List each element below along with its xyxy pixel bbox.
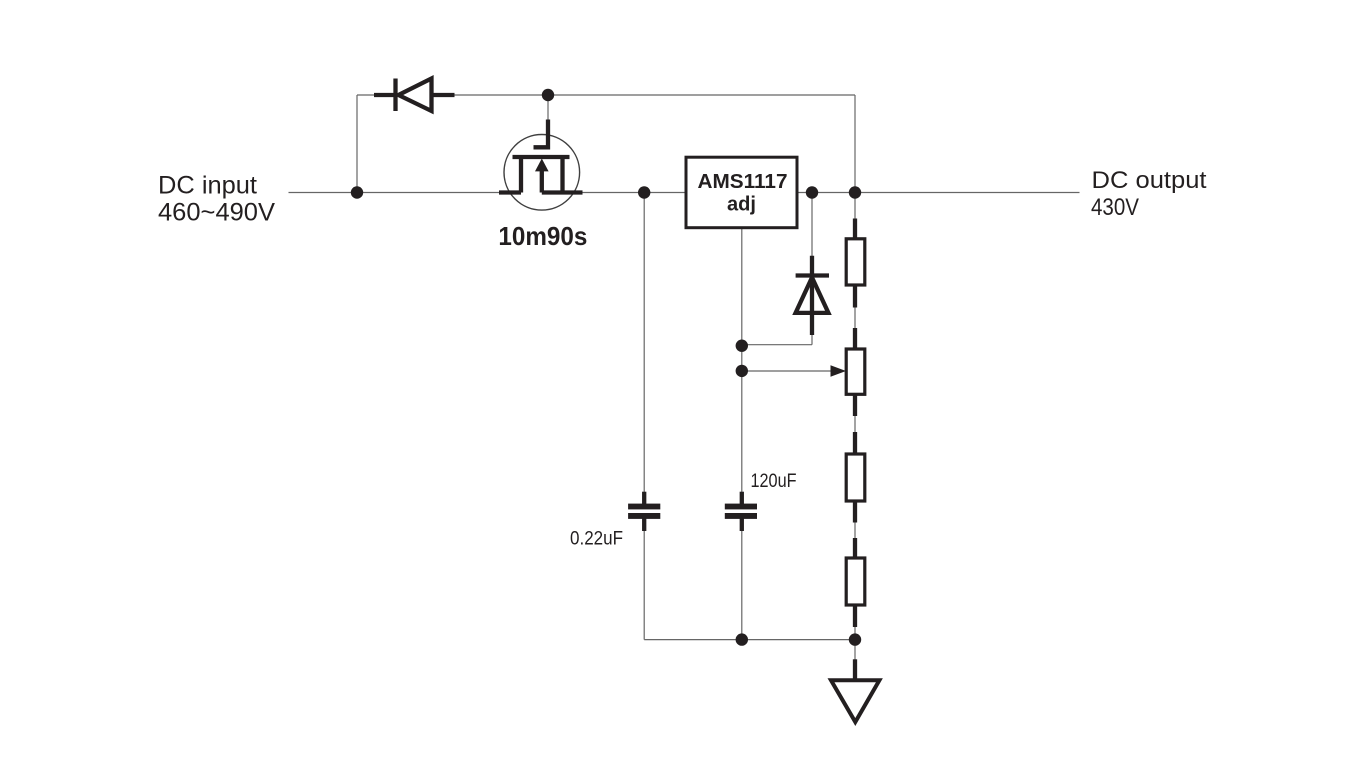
resistor R3 body [846, 558, 865, 605]
diode D2 (vertical, pointing up) [796, 256, 829, 335]
node: bottom rail ground junction [849, 633, 861, 645]
node: adj-wiper junction [736, 365, 748, 377]
svg-text:adj: adj [727, 194, 756, 216]
transistor Q1 source stub left [499, 190, 521, 194]
capacitor C2 bottom lead [740, 519, 744, 532]
wire: main horizontal input rail left segment [289, 192, 501, 194]
wire: adj pin vertical from AMS1117 down to capacitor C2 [741, 228, 743, 505]
resistor R2 body [846, 454, 865, 501]
resistor R1 lead bottom [853, 285, 857, 308]
svg-text:DC output: DC output [1092, 167, 1207, 194]
wire: vertical below capacitor C2 to bottom rail [741, 519, 743, 640]
svg-text:AMS1117: AMS1117 [698, 171, 788, 193]
transistor Q1 right leg [560, 157, 564, 193]
svg-text:DC input: DC input [158, 172, 257, 200]
ground [831, 680, 879, 722]
svg-text:0.22uF: 0.22uF [570, 528, 623, 550]
regulator U1 AMS1117 box [686, 157, 797, 228]
potentiometer RP body [846, 349, 865, 394]
potentiometer RP lead top [853, 328, 857, 350]
resistor R3 lead top [853, 538, 857, 559]
ground lead [853, 659, 857, 679]
node: bottom rail C2 junction [736, 633, 748, 645]
capacitor C1 top plate [628, 504, 660, 510]
transistor Q1 body circle (10m90s MOSFET) [504, 135, 580, 211]
diode D1 (bypass diode, pointing left) [374, 79, 455, 112]
wire: main horizontal rail right of MOSFET to DC output [582, 192, 1080, 194]
wire: gate lead thin segment from top node [547, 95, 549, 121]
svg-text:10m90s: 10m90s [498, 221, 587, 251]
capacitor C1 top lead [642, 492, 646, 505]
wire: vertical from output node down to diode D2 [811, 193, 813, 259]
potentiometer RP lead bottom [853, 394, 857, 416]
node: C1 tap on rail [638, 186, 650, 198]
transistor Q1 top bar [513, 155, 570, 159]
capacitor C2 top plate [725, 504, 757, 510]
wire: vertical from input-side node down to capacitor C1 [643, 193, 645, 505]
node: output rail / resistor column junction [849, 186, 861, 198]
node: input junction [351, 186, 363, 198]
resistor R2 lead bottom [853, 501, 857, 523]
node: regulator output junction [806, 186, 818, 198]
resistor R2 lead top [853, 432, 857, 455]
resistor R1 lead top [853, 219, 857, 241]
capacitor C1 bottom plate [628, 513, 660, 519]
svg-text:120uF: 120uF [751, 471, 797, 492]
node: top bypass junction (gate tap) [542, 89, 554, 101]
potentiometer RP wiper arrow [831, 365, 847, 376]
capacitor C2 bottom plate [725, 513, 757, 519]
resistor R1 body [846, 239, 865, 285]
wire: vertical riser from input node up to diode bypass line [356, 95, 358, 193]
svg-text:460~490V: 460~490V [158, 199, 275, 227]
wire: right resistor column vertical [854, 193, 856, 640]
resistor R3 lead bottom [853, 605, 857, 627]
transistor Q1 gate lead (L shape) [534, 120, 549, 148]
capacitor C1 bottom lead [642, 519, 646, 532]
wire: bottom horizontal ground rail [644, 639, 855, 641]
wire: vertical below capacitor C1 to bottom rail [643, 519, 645, 640]
wire: thin segment below diode D2 [811, 334, 813, 345]
wire: horizontal link from diode D2 bottom to adj node [742, 344, 812, 346]
capacitor C2 top lead [740, 492, 744, 505]
wire: top bypass line right of diode [450, 94, 855, 96]
transistor Q1 left leg [519, 157, 523, 193]
wire: vertical from bottom node down to ground symbol [854, 640, 856, 680]
transistor Q1 middle stub [540, 170, 544, 193]
node: adj-diode junction [736, 340, 748, 352]
transistor Q1 substrate arrow (pointing up) [535, 159, 549, 172]
transistor Q1 drain stub right [542, 190, 583, 194]
wire: potentiometer wiper horizontal line [742, 370, 833, 372]
wire: top bypass line left of diode [357, 94, 378, 96]
wire: right vertical drop from bypass line to output rail [854, 95, 856, 193]
svg-text:430V: 430V [1091, 194, 1139, 221]
